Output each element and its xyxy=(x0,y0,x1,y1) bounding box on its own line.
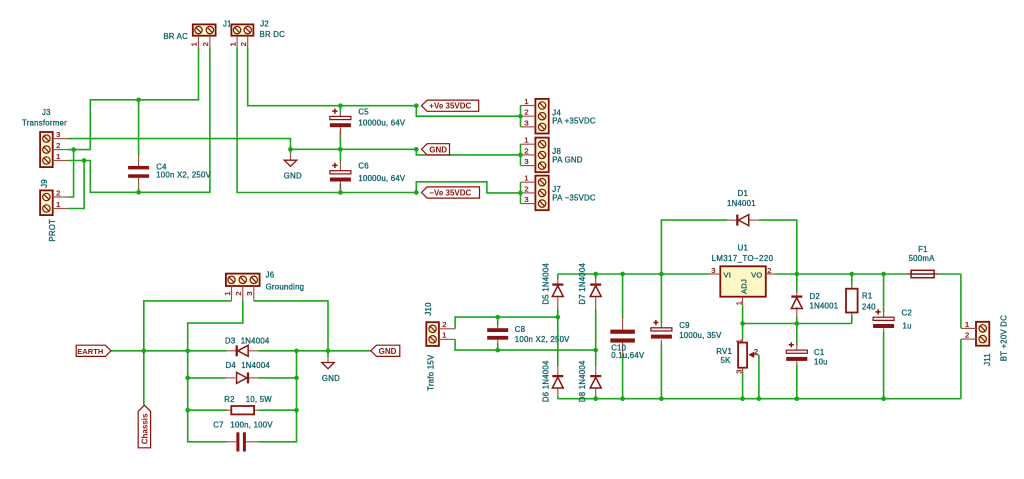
svg-text:VI: VI xyxy=(724,271,732,280)
svg-text:1: 1 xyxy=(965,320,969,329)
svg-text:1: 1 xyxy=(735,339,744,343)
svg-text:2: 2 xyxy=(524,184,528,193)
svg-text:5K: 5K xyxy=(721,356,732,365)
svg-text:D2: D2 xyxy=(810,292,820,301)
svg-text:2: 2 xyxy=(524,146,528,155)
svg-text:GND: GND xyxy=(379,347,397,356)
svg-text:+Ve 35VDC: +Ve 35VDC xyxy=(429,102,471,111)
svg-text:PA +35VDC: PA +35VDC xyxy=(552,117,596,126)
svg-text:100n X2, 250V: 100n X2, 250V xyxy=(515,335,570,344)
svg-text:Chassis: Chassis xyxy=(140,413,149,444)
svg-text:1: 1 xyxy=(442,331,446,340)
svg-text:F1: F1 xyxy=(918,245,928,254)
svg-text:1: 1 xyxy=(524,174,528,183)
svg-text:3: 3 xyxy=(245,291,254,295)
svg-text:J11: J11 xyxy=(983,353,992,366)
svg-text:3: 3 xyxy=(524,118,528,127)
svg-text:2: 2 xyxy=(767,266,771,275)
svg-text:−Ve 35VDC: −Ve 35VDC xyxy=(429,189,471,198)
svg-text:Grounding: Grounding xyxy=(266,283,305,292)
svg-text:1: 1 xyxy=(56,200,60,209)
svg-text:J1: J1 xyxy=(223,19,232,28)
svg-text:1N4001: 1N4001 xyxy=(810,302,839,311)
svg-text:2: 2 xyxy=(56,188,60,197)
svg-text:D4: D4 xyxy=(226,361,237,370)
svg-text:R2: R2 xyxy=(224,395,234,404)
svg-text:1: 1 xyxy=(734,301,743,305)
svg-text:1: 1 xyxy=(190,42,199,46)
svg-text:1: 1 xyxy=(524,136,528,145)
svg-text:J10: J10 xyxy=(424,302,433,316)
svg-text:Transformer: Transformer xyxy=(22,118,67,127)
svg-text:EARTH: EARTH xyxy=(77,347,103,356)
svg-text:R1: R1 xyxy=(862,291,872,300)
svg-text:C2: C2 xyxy=(902,309,912,318)
svg-text:BR AC: BR AC xyxy=(163,32,188,41)
svg-text:3: 3 xyxy=(711,266,715,275)
svg-text:100n, 100V: 100n, 100V xyxy=(230,421,273,430)
svg-text:100n X2, 250V: 100n X2, 250V xyxy=(156,171,211,180)
svg-text:D5 1N4004: D5 1N4004 xyxy=(542,263,551,305)
svg-text:PA GND: PA GND xyxy=(552,155,583,164)
svg-text:240: 240 xyxy=(862,303,876,312)
svg-text:10, 5W: 10, 5W xyxy=(246,395,273,404)
svg-text:3: 3 xyxy=(56,130,60,139)
svg-text:C8: C8 xyxy=(515,325,525,334)
svg-text:1N4004: 1N4004 xyxy=(241,337,270,346)
svg-text:GND: GND xyxy=(322,374,340,383)
svg-text:VO: VO xyxy=(751,271,762,280)
svg-text:RV1: RV1 xyxy=(716,347,732,356)
svg-text:2: 2 xyxy=(201,42,210,46)
svg-text:PA −35VDC: PA −35VDC xyxy=(552,193,596,202)
svg-text:0.1u,64V: 0.1u,64V xyxy=(611,351,645,360)
svg-text:10u: 10u xyxy=(814,358,828,367)
svg-text:J3: J3 xyxy=(42,108,51,117)
svg-text:1000u, 35V: 1000u, 35V xyxy=(679,331,722,340)
svg-text:10000u, 64V: 10000u, 64V xyxy=(358,119,406,128)
svg-text:J2: J2 xyxy=(260,19,269,28)
svg-text:2: 2 xyxy=(234,291,243,295)
svg-text:1N4001: 1N4001 xyxy=(727,199,756,208)
svg-text:D7 1N4004: D7 1N4004 xyxy=(578,263,587,305)
svg-text:D8 1N4004: D8 1N4004 xyxy=(578,360,587,402)
svg-text:D3: D3 xyxy=(225,337,235,346)
svg-text:BR DC: BR DC xyxy=(260,30,286,39)
svg-text:C6: C6 xyxy=(358,162,368,171)
svg-text:1: 1 xyxy=(223,291,232,295)
svg-text:1: 1 xyxy=(228,42,237,46)
svg-text:2: 2 xyxy=(965,331,969,340)
svg-text:J9: J9 xyxy=(40,179,49,188)
svg-text:1N4004: 1N4004 xyxy=(241,361,270,370)
svg-text:1: 1 xyxy=(524,97,528,106)
svg-text:D1: D1 xyxy=(738,189,748,198)
svg-text:LM317_TO−220: LM317_TO−220 xyxy=(712,254,774,263)
svg-text:3: 3 xyxy=(524,157,528,166)
svg-text:C1: C1 xyxy=(814,348,824,357)
svg-text:1: 1 xyxy=(56,152,60,161)
svg-text:C7: C7 xyxy=(213,421,223,430)
svg-text:GND: GND xyxy=(429,145,447,154)
svg-text:2: 2 xyxy=(754,347,758,356)
svg-text:ADJ: ADJ xyxy=(740,279,749,294)
svg-text:C9: C9 xyxy=(679,321,689,330)
svg-text:J6: J6 xyxy=(266,270,275,279)
svg-text:3: 3 xyxy=(735,369,744,373)
svg-text:GND: GND xyxy=(284,172,302,181)
svg-text:10000u, 64V: 10000u, 64V xyxy=(358,174,406,183)
svg-text:Trafo 15V: Trafo 15V xyxy=(427,354,436,391)
svg-text:D6 1N4004: D6 1N4004 xyxy=(542,360,551,402)
svg-text:2: 2 xyxy=(442,320,446,329)
svg-text:1u: 1u xyxy=(903,322,912,331)
svg-text:2: 2 xyxy=(524,108,528,117)
svg-text:U1: U1 xyxy=(738,244,748,253)
svg-text:500mA: 500mA xyxy=(909,254,936,263)
svg-text:C5: C5 xyxy=(358,108,369,117)
svg-text:3: 3 xyxy=(524,195,528,204)
svg-text:2: 2 xyxy=(56,141,60,150)
svg-text:BT +20V DC: BT +20V DC xyxy=(1000,315,1009,361)
svg-text:2: 2 xyxy=(239,42,248,46)
svg-text:PROT: PROT xyxy=(48,219,57,242)
